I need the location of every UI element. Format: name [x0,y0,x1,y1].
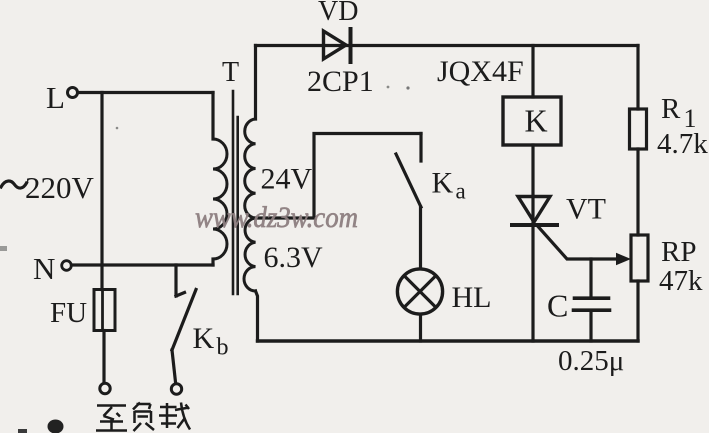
svg-text:47k: 47k [659,265,703,297]
terminal N [62,261,72,271]
svg-text:0.25μ: 0.25μ [558,345,624,377]
svg-text:24V: 24V [261,163,313,196]
relay coil K (JQX4F) [503,97,561,145]
lamp HL [397,269,442,314]
wire Ka to lamp [419,207,422,268]
label Kb [193,322,229,361]
terminal load 1 [100,383,110,393]
svg-text:K: K [525,103,548,139]
wire top rail to relay coil [531,46,534,98]
wire right branch top [636,46,639,110]
transformer core [233,91,238,294]
fuse FU [94,290,115,331]
svg-text:JQX4F: JQX4F [437,55,524,88]
svg-text:HL: HL [452,281,492,314]
wire secondary bottom to bottom rail [256,291,258,341]
svg-text:K: K [432,167,454,200]
resistor R1 [630,109,647,149]
svg-text:6.3V: 6.3V [264,241,324,274]
diode VD [324,29,351,62]
label Ka [432,167,466,204]
capacitor C [574,259,610,341]
svg-text:VT: VT [566,193,606,226]
decorative bullet [48,420,64,433]
wire L branch down to fuse [100,93,103,290]
wire L to transformer primary [79,91,214,94]
switch Kb [172,265,196,350]
thyristor VT [512,197,557,226]
label R1 [661,93,697,133]
svg-text:2CP1: 2CP1 [307,65,374,98]
wire RP to bottom rail [636,281,639,341]
arrow gate wiper [616,253,631,265]
transformer secondary winding [254,46,257,120]
wire Kb to load terminal [172,350,176,382]
label 至负载 (to load) [96,403,190,432]
wire N to transformer primary bottom [72,263,214,266]
svg-text:a: a [456,179,466,204]
wire fuse to load terminal [102,331,105,383]
wire relay coil to thyristor [531,145,534,225]
wire top rail from transformer secondary top to right branch [256,44,639,47]
svg-text:K: K [193,322,215,355]
svg-text:www.dz3w.com: www.dz3w.com [195,201,358,234]
svg-text:N: N [33,251,55,286]
svg-text:L: L [46,80,65,115]
wire thyristor cathode to bottom rail [531,225,534,341]
wire secondary tap to Ka branch [256,134,422,219]
svg-text:T: T [222,57,239,88]
decorative specks [0,86,410,433]
svg-text:C: C [547,288,568,324]
wire R1 to RP [636,149,639,235]
switch Ka [396,134,421,208]
svg-text:b: b [217,335,229,361]
terminal load 2 [171,384,181,394]
wire lamp to bottom rail [419,315,422,341]
wire thyristor gate to potentiometer wiper [538,227,618,260]
terminal L [68,88,78,98]
transformer T primary winding [211,93,214,140]
potentiometer RP [631,235,648,281]
label ~220V [1,170,95,205]
svg-text:220V: 220V [25,170,95,205]
svg-text:VD: VD [318,0,358,27]
svg-text:FU: FU [50,297,87,329]
svg-text:RP: RP [661,236,696,268]
wire bottom rail [258,339,639,342]
svg-text:R: R [661,93,681,125]
svg-text:4.7k: 4.7k [657,128,708,160]
